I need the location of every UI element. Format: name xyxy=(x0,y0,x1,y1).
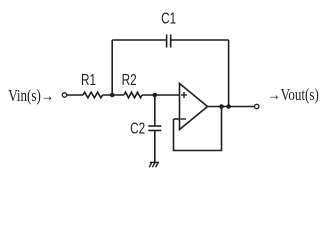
node C junction dot xyxy=(219,104,224,109)
resistor R1 xyxy=(81,71,103,97)
capacitor C1 xyxy=(161,10,176,48)
resistor R2 xyxy=(122,71,142,97)
node B junction dot xyxy=(153,93,158,98)
node D junction dot xyxy=(226,104,231,109)
svg-text:→Vout(s): →Vout(s) xyxy=(268,86,319,105)
wire node A up to feedback top rail xyxy=(111,40,113,95)
wire C2 to ground xyxy=(154,131,156,163)
ground xyxy=(149,162,159,167)
output terminal xyxy=(255,104,259,108)
capacitor C2 xyxy=(130,120,161,137)
wire top rail left segment xyxy=(112,39,166,41)
svg-text:Vin(s)→: Vin(s)→ xyxy=(8,87,54,106)
wire node B down to C2 xyxy=(154,95,156,126)
wire op-amp output xyxy=(208,106,255,108)
svg-text:R1: R1 xyxy=(81,71,96,88)
wire R1 to R2 through node A xyxy=(103,94,125,96)
op-amp U1 xyxy=(180,84,208,130)
node A junction dot xyxy=(110,93,115,98)
wire input to R1 xyxy=(67,94,83,96)
label Vin(s) xyxy=(8,87,54,106)
input terminal xyxy=(62,93,66,97)
svg-text:R2: R2 xyxy=(122,71,137,88)
wire top rail right segment xyxy=(171,39,229,41)
wire inverting input stub xyxy=(174,118,180,120)
wire R2 to op-amp noninverting input xyxy=(142,94,180,96)
svg-text:C1: C1 xyxy=(161,10,176,27)
svg-text:C2: C2 xyxy=(130,120,145,137)
wire feedback loop xyxy=(174,107,222,151)
label Vout(s) xyxy=(268,86,319,105)
wire top rail down to output node xyxy=(228,40,230,107)
